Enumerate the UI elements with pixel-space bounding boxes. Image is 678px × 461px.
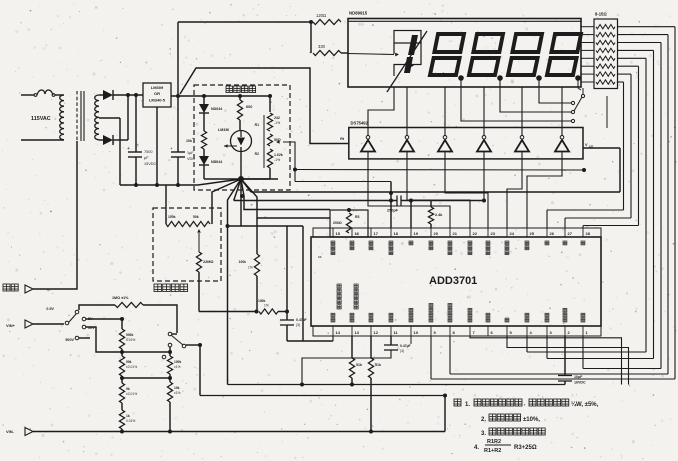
- svg-text:±1%: ±1%: [174, 365, 181, 369]
- svg-text:200Ω: 200Ω: [333, 221, 342, 225]
- svg-text:15: 15: [336, 231, 341, 236]
- svg-text:10µF: 10µF: [574, 375, 583, 379]
- svg-text:7500: 7500: [144, 150, 152, 154]
- svg-text:12: 12: [374, 330, 379, 335]
- svg-text:14: 14: [336, 330, 341, 335]
- svg-text:±0.01%: ±0.01%: [126, 392, 137, 396]
- svg-text:(3): (3): [400, 349, 404, 353]
- svg-text:26: 26: [550, 231, 555, 236]
- svg-text:1%: 1%: [248, 266, 253, 270]
- svg-text:250pF: 250pF: [387, 209, 399, 213]
- svg-text:ND89915: ND89915: [349, 11, 368, 16]
- svg-text:100k: 100k: [174, 360, 182, 364]
- svg-text:+: +: [170, 146, 173, 151]
- svg-text:4.: 4.: [474, 445, 479, 451]
- svg-text:1%: 1%: [264, 304, 269, 308]
- svg-text:+: +: [127, 146, 130, 152]
- svg-text:LM336: LM336: [218, 128, 229, 132]
- svg-text:1k: 1k: [126, 414, 130, 418]
- svg-text:22MΩ: 22MΩ: [203, 260, 213, 264]
- svg-text:µF: µF: [144, 156, 149, 160]
- svg-text:20: 20: [434, 231, 439, 236]
- svg-text:(3): (3): [296, 323, 300, 327]
- svg-text:120Ω: 120Ω: [316, 13, 326, 18]
- svg-text:0.47µF: 0.47µF: [296, 318, 307, 322]
- svg-text:24: 24: [510, 231, 515, 236]
- svg-text:10: 10: [414, 330, 419, 335]
- svg-text:8-15Ω: 8-15Ω: [595, 12, 607, 17]
- svg-text:ND644: ND644: [211, 107, 222, 111]
- svg-text:51k: 51k: [356, 363, 362, 367]
- svg-text:0.01%: 0.01%: [126, 419, 135, 423]
- svg-text:SS: SS: [589, 145, 593, 149]
- svg-text:ss: ss: [318, 255, 322, 259]
- svg-text:18: 18: [394, 231, 399, 236]
- svg-text:2.4k: 2.4k: [435, 213, 443, 217]
- svg-text:90k: 90k: [126, 360, 132, 364]
- svg-text:1.02k: 1.02k: [274, 153, 283, 157]
- svg-text:1MΩ ±1%: 1MΩ ±1%: [112, 296, 129, 300]
- svg-text:13: 13: [355, 330, 360, 335]
- svg-text:100k: 100k: [239, 260, 247, 264]
- svg-text:¼W, ±5%,: ¼W, ±5%,: [571, 401, 599, 408]
- svg-text:ADD3701: ADD3701: [429, 275, 477, 287]
- svg-text:10k: 10k: [186, 139, 192, 143]
- svg-text:17: 17: [374, 231, 379, 236]
- svg-text:900k: 900k: [126, 333, 134, 337]
- svg-text:232: 232: [274, 116, 280, 120]
- svg-text:±0.01%: ±0.01%: [126, 365, 137, 369]
- svg-text:R1R2: R1R2: [487, 439, 501, 445]
- svg-text:VIN-: VIN-: [6, 429, 15, 434]
- svg-text:LM340-5: LM340-5: [149, 98, 166, 103]
- svg-text:10k: 10k: [174, 386, 180, 390]
- svg-text:9k: 9k: [126, 387, 130, 391]
- svg-text:0.5V: 0.5V: [46, 307, 54, 311]
- svg-text:27: 27: [568, 231, 573, 236]
- svg-text:15VDC: 15VDC: [144, 162, 156, 166]
- svg-text:19: 19: [414, 231, 419, 236]
- svg-text:25: 25: [530, 231, 535, 236]
- svg-text:0.47µF: 0.47µF: [400, 344, 411, 348]
- svg-text:OR: OR: [154, 91, 160, 96]
- svg-text:-1%: -1%: [274, 158, 280, 162]
- svg-text:50k: 50k: [193, 215, 199, 219]
- svg-text:-1%: -1%: [274, 121, 280, 125]
- svg-text:16VDC: 16VDC: [574, 381, 586, 385]
- svg-text:600: 600: [246, 105, 252, 109]
- svg-text:330: 330: [318, 44, 326, 49]
- svg-text:R2: R2: [255, 152, 259, 156]
- svg-text:R1+R2: R1+R2: [484, 448, 501, 454]
- svg-text:1.: 1.: [465, 402, 470, 408]
- svg-text:100k: 100k: [258, 299, 266, 303]
- svg-text:115VAC: 115VAC: [31, 116, 51, 122]
- svg-text:3.: 3.: [481, 431, 486, 437]
- svg-text:1µF: 1µF: [187, 151, 194, 155]
- svg-text:R3+25Ω: R3+25Ω: [514, 445, 537, 451]
- svg-text:DS75492: DS75492: [351, 121, 369, 126]
- svg-text:500V: 500V: [65, 338, 74, 342]
- svg-text:VIN+: VIN+: [6, 323, 16, 328]
- svg-text:R1: R1: [255, 123, 259, 127]
- svg-text:28: 28: [586, 231, 591, 236]
- svg-text:LM309: LM309: [151, 85, 164, 90]
- svg-text:21: 21: [453, 231, 458, 236]
- svg-text:R3: R3: [355, 215, 360, 219]
- svg-text:±10%,: ±10%,: [523, 417, 540, 423]
- svg-text:±1%: ±1%: [174, 391, 181, 395]
- svg-text:23: 23: [491, 231, 496, 236]
- svg-text:22: 22: [473, 231, 478, 236]
